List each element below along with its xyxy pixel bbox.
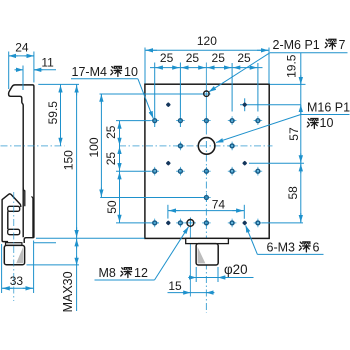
knob flange side: [6, 243, 22, 246]
centerline column (center, through M16 and knob): [205, 63, 207, 314]
base bottom ext (shared with front view): [36, 237, 145, 239]
row ext r3 left: [116, 170, 151, 172]
clamp knob side: [4, 245, 24, 264]
dim 120 ext lines: [144, 48, 146, 84]
svg-text:6: 6: [313, 241, 320, 255]
bar top ext right: [38, 83, 79, 85]
row centerline M16 dash-dot: [119, 145, 273, 147]
clamp upper pad: [8, 206, 20, 211]
dim 33 ext lines: [1, 244, 3, 293]
M3 top-right vertical tick: [244, 98, 246, 111]
row ext r5 left: [116, 222, 159, 224]
svg-text:25: 25: [104, 152, 118, 166]
svg-text:150: 150: [62, 150, 76, 170]
row ext r5 right: [262, 222, 303, 224]
centerline column c4: [231, 63, 233, 112]
svg-text:58: 58: [286, 186, 300, 200]
dim 100 vertical line left: [100, 94, 102, 198]
svg-text:12: 12: [134, 266, 148, 280]
dim 25x4 line: [150, 67, 263, 69]
clamp knob front: [196, 244, 218, 265]
svg-text:100: 100: [87, 137, 101, 157]
dim 24: [9, 55, 34, 57]
label 2-M6 P1 deep7: [209, 38, 348, 92]
label M16 P1 deep10: [216, 101, 350, 143]
svg-text:11: 11: [41, 55, 54, 69]
row centerline M6 row: [100, 93, 211, 95]
dim phi20: [190, 277, 254, 279]
side profile body (hook + plate edge): [9, 85, 34, 243]
svg-text:50: 50: [105, 200, 119, 214]
M3 holes (6x small dark dots): [166, 102, 248, 226]
svg-text:MAX30: MAX30: [61, 271, 75, 312]
svg-text:120: 120: [197, 34, 217, 48]
foot bottom ext short: [34, 242, 57, 244]
svg-text:7: 7: [339, 38, 346, 52]
M8 hole: [185, 217, 196, 228]
svg-text:19.5: 19.5: [284, 54, 298, 78]
svg-text:17-M4: 17-M4: [72, 65, 107, 79]
label 6-M3 deep6: [246, 225, 324, 254]
svg-text:25: 25: [186, 51, 200, 65]
dim 33: [2, 287, 34, 289]
carriage edge near right: [31, 197, 33, 238]
label 17-M4 deep10: [71, 65, 153, 118]
centerline column c2: [179, 63, 181, 128]
centerline column c5: [257, 63, 259, 112]
clamp body: [2, 199, 8, 241]
svg-text:10: 10: [320, 116, 334, 130]
svg-text:M8: M8: [99, 266, 116, 280]
row ext r1 left: [116, 120, 151, 122]
dim 19.5 / 57 / 58 vertical line right: [300, 53, 302, 223]
svg-text:6-M3: 6-M3: [267, 241, 296, 255]
row centerline r4 to center hole: [100, 197, 206, 199]
svg-text:33: 33: [10, 274, 24, 288]
svg-text:25: 25: [104, 125, 118, 139]
svg-text:25: 25: [212, 51, 226, 65]
svg-text:φ20: φ20: [224, 262, 248, 277]
M4 tapped holes (17x) cross circles: [150, 116, 262, 227]
row centerline M3 mid row (right): [249, 162, 304, 164]
dim 15: [168, 292, 215, 294]
svg-text:15: 15: [168, 279, 182, 293]
dim 25/25/50 vertical line left: [119, 121, 121, 223]
knob bottom ext: [27, 264, 80, 266]
svg-text:57: 57: [287, 127, 301, 141]
dim 25x4 arrows: [156, 67, 257, 69]
dim phi20 ext lines: [195, 267, 197, 282]
svg-text:74: 74: [212, 198, 226, 212]
row centerline M3 top row (right): [240, 104, 301, 106]
M6 tapped hole (top center): [204, 91, 209, 96]
clamp screw axis centerline: [13, 192, 15, 301]
centerline column c1: [154, 63, 156, 128]
svg-text:24: 24: [15, 40, 29, 54]
clamp lower pad: [8, 229, 20, 234]
knob shading front: [198, 247, 206, 264]
clamp arm (peak): [2, 194, 21, 207]
dim 74: [168, 210, 244, 212]
label M8 deep12: [95, 227, 189, 280]
svg-text:59.5: 59.5: [46, 101, 60, 125]
stage top plate outline 120x150: [145, 84, 269, 238]
svg-text:25: 25: [237, 51, 251, 65]
dim MAX30: [76, 238, 78, 311]
M16 row centerline across side view: [1, 145, 65, 147]
M16 center hole: [198, 138, 215, 155]
dim 59.5: [60, 84, 62, 145]
plate top ext right: [270, 83, 306, 85]
dim 150: [76, 84, 78, 238]
svg-text:M16 P1: M16 P1: [307, 101, 350, 115]
knob shading side: [16, 247, 23, 263]
svg-text:2-M6 P1: 2-M6 P1: [273, 38, 320, 52]
dim 11 ext line: [22, 66, 24, 91]
centerline column M8 knob axis: [189, 219, 191, 297]
svg-text:25: 25: [160, 51, 174, 65]
svg-text:10: 10: [124, 65, 138, 79]
dim 120: [145, 49, 269, 51]
dim 74 ext lines: [167, 205, 169, 219]
dim 11 (outside arrows): [34, 69, 56, 71]
knob flange front: [186, 238, 229, 243]
dim 24 ext lines: [8, 52, 10, 90]
hook inner step: [23, 188, 25, 207]
